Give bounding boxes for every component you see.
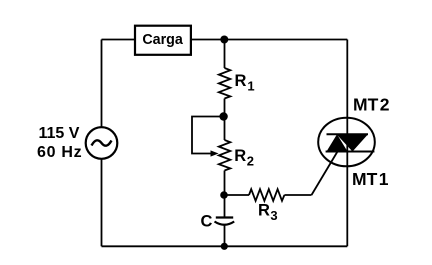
load box Carga [135,26,191,55]
wire top-right segment [191,39,347,41]
wire left rail upper [101,40,103,128]
svg-text:R1: R1 [235,72,255,94]
resistor R1 [219,68,231,99]
wire node to R3 [224,194,249,196]
potentiometer R2 [219,140,231,171]
wire R3 to gate bend [284,194,311,196]
svg-text:R3: R3 [258,202,278,224]
wire middle branch between R1 and R2 [224,99,226,141]
node R2-R3-C junction dot [220,191,228,199]
triac right triangle [337,134,369,151]
wire left rail lower [101,159,103,247]
svg-text:C: C [201,213,213,231]
wire right rail [346,40,348,247]
svg-text:Carga: Carga [142,32,184,48]
resistor R3 [249,189,284,201]
AC source V1 circle [86,127,118,159]
wire pot wiper loop [192,117,224,154]
triac bottom bar MT1 terminal [326,151,375,153]
svg-text:MT 1: MT 1 [352,169,389,189]
capacitor C bottom plate [215,222,235,225]
svg-text:MT 2: MT 2 [353,95,390,115]
capacitor C top plate [216,216,233,218]
node R1-R2 junction dot [219,112,227,120]
node bottom junction dot [221,243,228,250]
wire bottom rail [102,245,348,247]
triac top bar MT2 terminal [327,133,369,135]
wire middle branch top [224,40,226,69]
wire middle branch between R2 and node [224,171,226,218]
arrowhead of pot wiper [211,150,219,156]
AC source sine symbol [92,140,112,145]
wire C to bottom rail [224,225,226,246]
wire top-left segment [102,39,136,41]
triac left triangle [327,134,348,151]
svg-text:115 V: 115 V [39,125,80,142]
svg-text:R2: R2 [234,147,254,169]
wire gate diagonal [312,152,338,196]
triac Q1 circle [318,118,375,167]
svg-text:60 Hz: 60 Hz [37,144,82,161]
node top junction dot [220,36,228,44]
